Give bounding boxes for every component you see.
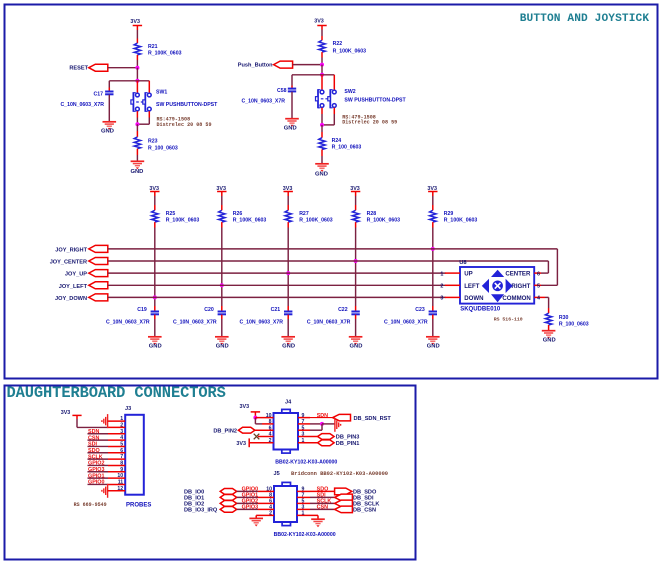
svg-text:UP: UP [464, 271, 472, 278]
wire net GPIO2 (J3 pin 8) [88, 464, 109, 466]
svg-text:DOWN: DOWN [464, 295, 483, 302]
svg-text:JOY_RIGHT: JOY_RIGHT [55, 247, 87, 253]
svg-text:R_100K_0603: R_100K_0603 [233, 218, 267, 224]
svg-text:3V3: 3V3 [283, 186, 293, 192]
J3 pin 2 [108, 426, 125, 428]
J4 pin 5 [298, 429, 310, 431]
wire C19 to GND [154, 315, 156, 319]
svg-text:R25: R25 [166, 211, 176, 217]
sheet border (daughterboard connectors) [5, 386, 416, 560]
wire node down [321, 65, 323, 75]
svg-text:SW2: SW2 [344, 89, 355, 95]
node junction R25 [153, 295, 157, 299]
wire R27 to bus and C21 [287, 228, 289, 307]
svg-text:3V3: 3V3 [149, 186, 159, 192]
svg-text:GND: GND [284, 126, 297, 132]
wire net GPIO3 [237, 508, 258, 510]
svg-text:Bridconn BB02-KY102-K03-A00000: Bridconn BB02-KY102-K03-A00000 [291, 471, 388, 477]
svg-text:2: 2 [269, 511, 272, 517]
capacitor C19 [151, 311, 159, 313]
J4 pin 7 [298, 423, 310, 425]
wire net JOY_UP [108, 272, 446, 274]
svg-text:C22: C22 [338, 307, 348, 313]
svg-text:3V3: 3V3 [130, 19, 140, 25]
wire R22 to Push_Button node [321, 58, 323, 65]
svg-text:2: 2 [440, 284, 443, 290]
svg-text:Distrelec 20 08 59: Distrelec 20 08 59 [157, 122, 212, 128]
svg-text:CENTER: CENTER [505, 271, 531, 278]
svg-text:10: 10 [266, 413, 272, 419]
svg-text:JOY_DOWN: JOY_DOWN [55, 296, 87, 302]
wire net SCLK [310, 502, 335, 504]
wire net GPIO1 [237, 496, 258, 498]
svg-text:5: 5 [302, 425, 305, 431]
wire 3V3 to R22 [321, 30, 323, 37]
svg-text:GPIO1: GPIO1 [88, 473, 104, 479]
wire R28 to bus and C22 [355, 228, 357, 307]
wire Push_Button to node [293, 64, 322, 66]
svg-text:JOY_LEFT: JOY_LEFT [59, 284, 88, 290]
resistor R24 [321, 125, 323, 132]
svg-text:R23: R23 [148, 138, 158, 144]
svg-text:RS 516-110: RS 516-110 [494, 317, 523, 323]
wire net SDO (J3 pin 6) [88, 452, 109, 454]
wire C58 to GND [291, 92, 293, 119]
svg-text:SW PUSHBUTTON-DPST: SW PUSHBUTTON-DPST [156, 102, 218, 108]
wire C21 to GND [287, 315, 289, 319]
wire 3V3 to R28 [355, 196, 357, 205]
svg-text:3: 3 [302, 432, 305, 438]
J3 pin 6 [108, 452, 125, 454]
svg-text:COMMON: COMMON [502, 295, 530, 302]
svg-text:2: 2 [120, 422, 123, 428]
power 3V3 (R22) [317, 25, 326, 27]
svg-text:RIGHT: RIGHT [511, 283, 530, 290]
svg-text:C19: C19 [137, 307, 147, 313]
wire net SDI (J3 pin 5) [88, 445, 109, 447]
wire SW1 to lower node [136, 111, 138, 117]
resistor R29 [432, 205, 434, 210]
J5 pin 3 [297, 508, 310, 510]
svg-text:3V3: 3V3 [236, 441, 246, 447]
J3 pin 10 [108, 477, 125, 479]
svg-text:1: 1 [302, 438, 305, 444]
svg-text:2: 2 [269, 438, 272, 444]
svg-text:3V3: 3V3 [61, 410, 71, 416]
svg-text:GPIO3: GPIO3 [242, 505, 258, 511]
capacitor C20 [218, 311, 226, 313]
J5 pin 8 [258, 496, 274, 498]
ground (J4 pins 5,7) [322, 423, 335, 425]
joystick U8 pin 2 LEFT [445, 284, 460, 286]
svg-text:GND: GND [315, 172, 328, 178]
joystick U8 pin 1 UP [445, 272, 460, 274]
capacitor C22 [351, 311, 359, 313]
capacitor C23 [429, 311, 437, 313]
svg-text:C_10N_0603_X7R: C_10N_0603_X7R [173, 319, 217, 325]
svg-text:J4: J4 [285, 399, 292, 405]
J3 pin 12 [108, 490, 126, 492]
svg-text:PROBES: PROBES [126, 502, 151, 508]
wire JOY_RIGHT wrap to joystick RIGHT pin [556, 249, 558, 285]
ground (R23) [131, 160, 145, 162]
wire 3V3 to R25 [154, 196, 156, 205]
svg-text:GND: GND [149, 344, 162, 350]
J3 pin 4 [108, 439, 125, 441]
ground (C19) [148, 336, 162, 338]
ground (J5 pin 2) [255, 515, 257, 518]
node SW2 bottom junction [320, 123, 324, 127]
wire net GPIO0 [237, 490, 258, 492]
svg-text:R_100_0603: R_100_0603 [332, 145, 362, 151]
J4 pin 3 [298, 436, 318, 438]
J3 pin 7 [108, 458, 125, 460]
power 3V3 (R25) [150, 191, 159, 193]
svg-text:R27: R27 [299, 211, 309, 217]
wire 3V3 to R27 [287, 196, 289, 205]
node SW1 bottom junction [135, 122, 139, 126]
svg-text:GND: GND [427, 344, 440, 350]
svg-text:R30: R30 [559, 315, 569, 321]
svg-text:SW1: SW1 [156, 89, 167, 95]
joystick arrows graphic [491, 270, 504, 277]
no-connect X (J4 pin 4) [254, 434, 260, 440]
svg-text:DB_PIN3: DB_PIN3 [336, 435, 360, 441]
ground (C17) [103, 121, 117, 123]
svg-text:R_100K_0603: R_100K_0603 [299, 218, 333, 224]
svg-text:11: 11 [118, 479, 124, 485]
svg-text:3: 3 [440, 296, 443, 302]
J5 pin 10 [258, 490, 274, 492]
power 3V3 (R29) [428, 191, 437, 193]
J5 pin 2 [256, 514, 274, 516]
svg-text:LEFT: LEFT [464, 283, 480, 290]
wire COMMON to R30 [545, 296, 549, 298]
wire net CSN [310, 508, 335, 510]
svg-text:3: 3 [120, 429, 123, 435]
wire net SDN (J3 pin 3) [88, 433, 109, 435]
wire net GPIO3 (J3 pin 9) [88, 471, 109, 473]
J4 pin 1 [298, 442, 318, 444]
svg-text:R22: R22 [333, 41, 343, 47]
svg-text:C17: C17 [93, 92, 103, 98]
node 3V3 junction (J4) [253, 416, 257, 420]
wire gnd node to J4 pin 5 [321, 424, 323, 430]
svg-text:6: 6 [537, 271, 540, 277]
J5 pin 1 [297, 514, 318, 516]
wire net GPIO1 (J3 pin 10) [88, 477, 109, 479]
svg-text:J3: J3 [125, 406, 131, 412]
connector J3 outline [125, 415, 144, 495]
svg-text:C_10N_0603_X7R: C_10N_0603_X7R [106, 319, 150, 325]
wire R24 to GND [321, 156, 323, 164]
svg-text:R24: R24 [332, 138, 342, 144]
wire 3V3 to J4 pin 8 [254, 418, 256, 424]
J5 pin 7 [297, 496, 310, 498]
port DB_SDN_RST [333, 414, 351, 421]
svg-text:4: 4 [269, 432, 272, 438]
svg-text:3V3: 3V3 [427, 186, 437, 192]
svg-text:J5: J5 [274, 471, 280, 477]
wire branch to C17 and SW1 [109, 80, 149, 82]
svg-text:R_100K_0603: R_100K_0603 [333, 49, 367, 55]
svg-text:GND: GND [543, 338, 556, 344]
svg-text:BB02-KY102-K03-A00000: BB02-KY102-K03-A00000 [275, 459, 337, 465]
svg-text:SKQUDBE010: SKQUDBE010 [460, 307, 501, 313]
J4 pin 10 [255, 417, 273, 419]
svg-text:3V3: 3V3 [314, 19, 324, 25]
svg-text:GND: GND [130, 169, 143, 175]
wire R26 to bus and C20 [221, 228, 223, 307]
port DB_PIN1 [318, 440, 335, 446]
svg-text:R26: R26 [233, 211, 243, 217]
svg-text:Distrelec 20 08 59: Distrelec 20 08 59 [342, 120, 397, 126]
svg-text:Push_Button: Push_Button [238, 63, 273, 69]
wire node down [136, 68, 138, 81]
svg-text:3V3: 3V3 [350, 186, 360, 192]
svg-text:GPIO0: GPIO0 [88, 480, 104, 486]
wire 3V3 to R21 [136, 30, 138, 39]
svg-text:GPIO2: GPIO2 [88, 461, 104, 467]
J5 pin 9 [297, 490, 310, 492]
node Push_Button junction [320, 63, 324, 67]
svg-text:SCLK: SCLK [88, 454, 103, 460]
J3 pin 9 [108, 471, 125, 473]
node junction R26 [220, 283, 224, 287]
node junction R29 [431, 247, 435, 251]
svg-text:DB_SDN_RST: DB_SDN_RST [354, 416, 392, 422]
port DB_PIN3 [318, 434, 335, 440]
wire JOY_CENTER wrap to joystick CENTER pin [547, 261, 549, 273]
switch SW2 [320, 90, 324, 94]
svg-text:JOY_UP: JOY_UP [65, 272, 87, 278]
wire net GPIO2 [237, 502, 258, 504]
svg-text:C_10N_0603_X7R: C_10N_0603_X7R [239, 319, 283, 325]
svg-text:GPIO3: GPIO3 [88, 467, 104, 473]
wire net JOY_LEFT [108, 284, 446, 286]
svg-text:6: 6 [120, 448, 123, 454]
svg-text:GND: GND [101, 129, 114, 135]
ground (J5 pin 1) [317, 515, 319, 519]
wire branch to C58 and SW2 [292, 74, 334, 76]
resistor R21 [136, 39, 138, 44]
joystick U8 outline [460, 267, 534, 304]
J4 pin 8 [262, 423, 274, 425]
J4 pin 2 [249, 442, 273, 444]
svg-text:SDN: SDN [88, 429, 99, 435]
ground (J3 pin 12) [107, 484, 109, 498]
wire C22 to GND [355, 315, 357, 319]
svg-text:6: 6 [269, 425, 272, 431]
resistor R26 [221, 205, 223, 210]
wire 3V3 to R26 [221, 196, 223, 205]
wire net SDI [310, 496, 335, 498]
svg-text:1: 1 [302, 511, 305, 517]
svg-text:R_100_0603: R_100_0603 [559, 321, 589, 327]
svg-text:SDI: SDI [88, 442, 97, 448]
svg-text:C_10N_0603_X7R: C_10N_0603_X7R [60, 102, 104, 108]
wire R29 to bus and C23 [432, 228, 434, 307]
joystick U8 pin 4 COMMON [534, 296, 545, 298]
svg-text:U8: U8 [459, 260, 467, 266]
svg-text:GND: GND [350, 344, 363, 350]
svg-text:JOY_CENTER: JOY_CENTER [50, 260, 87, 266]
resistor R25 [154, 205, 156, 210]
wire R21 to RESET node [136, 60, 138, 68]
sheet border (button and joystick) [5, 5, 658, 379]
ground (C20) [215, 336, 229, 338]
J4 pin 9 [298, 417, 310, 419]
svg-text:C21: C21 [271, 307, 281, 313]
svg-text:C20: C20 [204, 307, 214, 313]
svg-text:7: 7 [302, 419, 305, 425]
ground (C22) [349, 336, 363, 338]
svg-text:R_100K_0603: R_100K_0603 [367, 218, 401, 224]
connector J4 outline [274, 413, 299, 450]
svg-text:DAUGHTERBOARD CONNECTORS: DAUGHTERBOARD CONNECTORS [7, 384, 226, 402]
svg-text:C_10N_0603_X7R: C_10N_0603_X7R [384, 319, 428, 325]
power 3V3 (R21) [133, 25, 142, 27]
wire net SCLK (J3 pin 7) [88, 458, 109, 460]
svg-text:RS 669-9549: RS 669-9549 [74, 502, 107, 508]
svg-text:SW PUSHBUTTON-DPST: SW PUSHBUTTON-DPST [344, 97, 406, 103]
wire net SDO [310, 490, 335, 492]
switch SW1 [136, 93, 140, 97]
svg-text:8: 8 [120, 460, 123, 466]
wire net JOY_CENTER [108, 260, 549, 262]
J4 pin 4 [258, 436, 274, 438]
svg-text:5: 5 [120, 441, 123, 447]
wire net GPIO0 (J3 pin 11) [88, 483, 109, 485]
svg-text:10: 10 [117, 473, 123, 479]
joystick U8 pin 5 RIGHT [534, 284, 541, 286]
svg-text:R_100K_0603: R_100K_0603 [444, 218, 478, 224]
wire 3V3 to R29 [432, 196, 434, 205]
svg-text:R29: R29 [444, 211, 454, 217]
ground (C23) [426, 336, 440, 338]
svg-text:C58: C58 [277, 88, 287, 94]
port DB_SDO [335, 488, 352, 495]
svg-text:C_10N_0603_X7R: C_10N_0603_X7R [241, 99, 285, 105]
svg-text:SDO: SDO [88, 448, 100, 454]
J5 pin 6 [258, 502, 274, 504]
capacitor C21 [284, 311, 292, 313]
svg-text:GND: GND [216, 344, 229, 350]
J5 pin 4 [258, 508, 274, 510]
svg-text:CSN: CSN [88, 435, 99, 441]
J4 pin 6 [255, 429, 274, 431]
resistor R22 [321, 36, 323, 40]
svg-text:9: 9 [120, 467, 123, 473]
wire C17 to GND [108, 95, 110, 122]
resistor R27 [287, 205, 289, 210]
joystick U8 pin 6 CENTER [534, 272, 541, 274]
port DB_SCLK [335, 500, 353, 507]
resistor R23 [136, 124, 138, 131]
svg-text:R_100K_0603: R_100K_0603 [148, 51, 182, 57]
J3 pin 8 [108, 464, 125, 466]
svg-text:12: 12 [117, 486, 123, 492]
node gnd junction (J4) [320, 422, 324, 426]
svg-text:CSN: CSN [317, 505, 328, 511]
ground (R24) [315, 163, 329, 165]
power 3V3 (R27) [284, 191, 293, 193]
svg-text:R_100_0603: R_100_0603 [148, 146, 178, 152]
ground (C58) [285, 118, 299, 120]
port DB_CSN [335, 506, 353, 513]
svg-text:BUTTON AND JOYSTICK: BUTTON AND JOYSTICK [520, 13, 650, 25]
svg-text:7: 7 [120, 454, 123, 460]
capacitor C58 [288, 88, 296, 90]
svg-text:5: 5 [537, 284, 540, 290]
svg-text:DB_PIN1: DB_PIN1 [336, 441, 360, 447]
svg-text:1: 1 [120, 416, 123, 422]
wire RESET to node [108, 67, 138, 69]
ground (J3 pin 1) [107, 414, 109, 428]
ground (C21) [281, 336, 295, 338]
node junction R28 [354, 259, 358, 263]
svg-text:4: 4 [537, 296, 540, 302]
wire C20 to GND [221, 315, 223, 319]
port DB_SDI [335, 494, 353, 501]
svg-text:DB_CSN: DB_CSN [353, 508, 376, 514]
svg-text:9: 9 [302, 413, 305, 419]
svg-text:R21: R21 [148, 44, 158, 50]
svg-text:RESET: RESET [69, 66, 88, 72]
J3 pin 3 [108, 433, 125, 435]
wire net JOY_RIGHT [108, 248, 558, 250]
svg-text:GND: GND [282, 344, 295, 350]
wire R25 to bus and C19 [154, 228, 156, 307]
svg-text:DB_PIN2: DB_PIN2 [213, 428, 237, 434]
node RESET junction [135, 66, 139, 70]
svg-text:C_10N_0603_X7R: C_10N_0603_X7R [307, 319, 351, 325]
wire J4 pin7 to gnd node [310, 423, 322, 425]
wire net JOY_DOWN [108, 296, 446, 298]
svg-text:DB_IO3_IRQ: DB_IO3_IRQ [184, 508, 218, 514]
wire net CSN (J3 pin 4) [88, 439, 109, 441]
wire C23 to GND [432, 315, 434, 319]
J3 pin 5 [108, 445, 125, 447]
svg-text:C23: C23 [415, 307, 425, 313]
resistor R28 [355, 205, 357, 210]
J3 pin 1 [108, 420, 126, 422]
joystick U8 pin 3 DOWN [445, 296, 460, 298]
resistor R30 [548, 308, 550, 313]
svg-text:3V3: 3V3 [216, 186, 226, 192]
J3 pin 11 [108, 483, 125, 485]
node SW1 branch junction [135, 79, 139, 83]
ground (R30) [542, 330, 556, 332]
svg-text:1: 1 [440, 271, 443, 277]
svg-text:4: 4 [120, 435, 123, 441]
power 3V3 (R26) [217, 191, 226, 193]
node SW2 branch junction [320, 73, 324, 77]
connector J5 outline [274, 486, 297, 522]
svg-text:BB02-KY102-K03-A00000: BB02-KY102-K03-A00000 [274, 532, 336, 538]
wire 3V3 to J3 pin 2 [76, 419, 78, 427]
J5 pin 5 [297, 502, 310, 504]
svg-text:3V3: 3V3 [240, 404, 250, 410]
svg-text:R_100K_0603: R_100K_0603 [166, 218, 200, 224]
wire SW2 to lower node [321, 108, 323, 114]
svg-text:8: 8 [269, 419, 272, 425]
capacitor C17 [105, 91, 113, 93]
power 3V3 (R28) [351, 191, 360, 193]
svg-text:R28: R28 [367, 211, 377, 217]
node junction R27 [286, 271, 290, 275]
wire R23 to GND [136, 155, 138, 161]
